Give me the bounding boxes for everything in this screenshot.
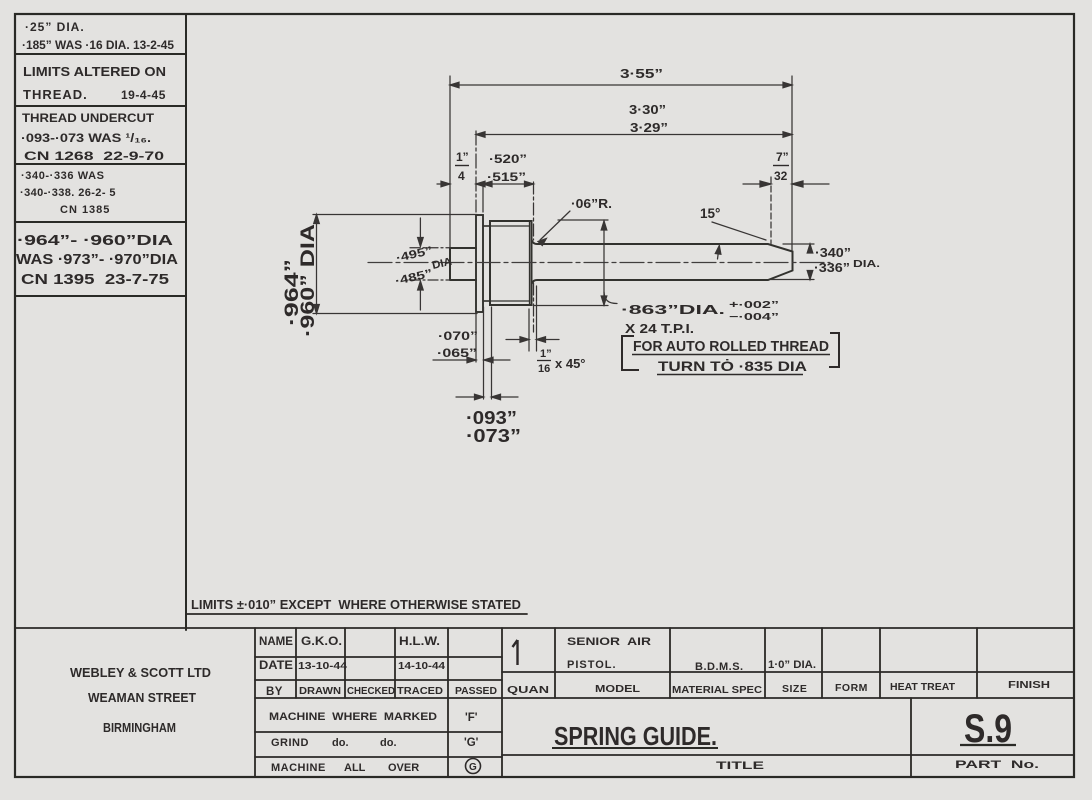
quantity [513,640,518,665]
svg-text:'G': 'G' [464,737,479,749]
svg-text:·340-·338. 26-2- 5: ·340-·338. 26-2- 5 [20,187,116,199]
svg-text:TRACED: TRACED [397,685,443,697]
svg-text:1”: 1” [540,348,552,360]
svg-text:DIA.: DIA. [853,259,880,270]
svg-text:WEAMAN STREET: WEAMAN STREET [88,691,196,705]
svg-text:FOR AUTO ROLLED THREAD: FOR AUTO ROLLED THREAD [633,339,829,355]
leader hook to .863 text [604,292,617,304]
circled symbol [466,759,481,774]
part: threaded collar outer [490,221,532,305]
dimension .093/.073 [456,396,484,398]
dimension .070/.065 [433,359,476,361]
dimension .863 vertical [603,221,605,305]
svg-text:TITLE: TITLE [716,760,764,772]
svg-text:·093”: ·093” [466,408,517,428]
svg-text:MACHINE WHERE MARKED: MACHINE WHERE MARKED [269,711,437,723]
svg-text:7”: 7” [776,150,789,164]
svg-text:·336”: ·336” [814,261,850,275]
svg-text:CN 1395 23-7-75: CN 1395 23-7-75 [21,272,169,288]
svg-text:SIZE: SIZE [782,683,807,695]
leader .06R [540,211,570,240]
revision note 5 [16,233,179,288]
svg-text:do.: do. [332,737,349,749]
svg-text:3·30”: 3·30” [629,103,666,117]
svg-text:do.: do. [380,737,397,749]
extension lines: chamfer (1/16 x 45) [528,309,530,351]
extension lines: undercut width (.093/.073) [483,307,485,399]
svg-text:32: 32 [774,169,788,183]
part: left stub shaft [450,248,476,280]
svg-text:·25” DIA.: ·25” DIA. [25,20,85,34]
svg-text:'F': 'F' [465,712,478,724]
svg-text:MODEL: MODEL [595,683,641,695]
svg-text:FINISH: FINISH [1008,679,1050,691]
part: flange disc [476,215,483,312]
svg-text:CN 1385: CN 1385 [60,204,110,216]
svg-text:THREAD UNDERCUT: THREAD UNDERCUT [22,111,155,125]
svg-text:·960” DIA: ·960” DIA [298,224,319,337]
dimension .340/.336 arrows [809,244,811,252]
dimension .495/.485 arrows [419,218,421,246]
svg-text:−·004”: −·004” [729,312,779,323]
extension line: flange left lower (.070/.065) [475,314,477,362]
svg-text:15°: 15° [700,206,720,221]
extension lines: shaft diameter (.340/.336) [783,243,814,245]
svg-text:G: G [469,762,477,773]
svg-text:4: 4 [458,169,465,183]
svg-text:19-4-45: 19-4-45 [121,88,166,102]
svg-text:TURN TȮ ·835 DIA: TURN TȮ ·835 DIA [658,358,807,374]
svg-text:THREAD.: THREAD. [23,87,88,102]
extension line: flange left (3.30 / quarter) [475,131,477,212]
svg-text:BIRMINGHAM: BIRMINGHAM [103,721,176,735]
extension line: flange right (.520) [482,182,484,212]
svg-text:·340”: ·340” [815,246,851,260]
svg-text:SENIOR AIR: SENIOR AIR [567,636,651,648]
svg-text:BY: BY [266,686,283,698]
revision note 2 [23,64,166,102]
part: thread undercut groove [483,226,490,301]
svg-text:MACHINE: MACHINE [271,762,326,774]
svg-text:·515”: ·515” [487,170,526,184]
leader 15 degrees [712,222,766,240]
dimension .964/.960 vertical [316,215,318,314]
revision column right edge [185,14,187,630]
svg-text:x 45°: x 45° [555,356,586,371]
extension lines: thread diameter (.863) [558,219,608,221]
svg-text:·520”: ·520” [489,152,527,166]
revision box separators [15,53,186,55]
small thread-end arrow [718,247,720,259]
svg-text:WAS ·973”- ·970”DIA: WAS ·973”- ·970”DIA [16,252,179,268]
svg-text:OVER: OVER [388,762,419,774]
svg-text:CHECKED: CHECKED [347,685,395,697]
svg-text:14-10-44: 14-10-44 [398,660,445,672]
revision note 1 [22,20,175,52]
svg-text:1·0” DIA.: 1·0” DIA. [768,659,816,671]
dimension 3.55 [450,84,792,86]
svg-text:·065”: ·065” [437,346,477,360]
svg-text:QUAN: QUAN [507,684,549,696]
svg-text:DRAWN: DRAWN [299,685,341,697]
svg-text:+·002”: +·002” [729,300,779,311]
svg-text:MATERIAL SPEC: MATERIAL SPEC [672,684,762,696]
svg-text:·340-·336 WAS: ·340-·336 WAS [21,170,105,182]
svg-text:·185” WAS ·16 DIA. 13-2-45: ·185” WAS ·16 DIA. 13-2-45 [22,40,175,52]
svg-text:3·55”: 3·55” [620,66,663,81]
dimension 3.30 / 3.29 [476,134,792,136]
svg-text:X 24 T.P.I.: X 24 T.P.I. [625,322,694,336]
svg-text:ALL: ALL [344,762,366,774]
svg-text:16: 16 [538,363,550,375]
svg-text:SPRING GUIDE.: SPRING GUIDE. [554,721,717,751]
svg-text:LIMITS ±·010” EXCEPT WHERE OT: LIMITS ±·010” EXCEPT WHERE OTHERWISE STA… [191,598,521,612]
centerline [368,262,830,264]
svg-text:HEAT TREAT: HEAT TREAT [890,681,956,693]
svg-text:PART No.: PART No. [955,759,1039,771]
title block header verticals [295,628,297,698]
svg-text:H.L.W.: H.L.W. [399,636,440,648]
svg-text:FORM: FORM [835,682,868,694]
revision note 3 [21,111,164,163]
svg-text:DATE: DATE [259,660,293,672]
svg-text:PASSED: PASSED [455,685,497,697]
extension chain lines: stub diameter [410,247,450,249]
svg-text:G.K.O.: G.K.O. [301,636,342,648]
svg-text:3·29”: 3·29” [630,121,668,135]
dimension 1/16 chamfer arrows [506,339,529,341]
svg-text:·093-·073 WAS ¹/₁₆.: ·093-·073 WAS ¹/₁₆. [21,131,151,145]
extension line: left end of stub (3.55) [449,76,451,248]
title block row lines [255,656,502,658]
svg-text:13-10-44: 13-10-44 [298,660,347,672]
svg-text:LIMITS ALTERED ON: LIMITS ALTERED ON [23,64,166,79]
svg-text:·863”DIA.: ·863”DIA. [621,302,725,317]
svg-text:WEBLEY & SCOTT LTD: WEBLEY & SCOTT LTD [70,666,211,680]
svg-text:1”: 1” [456,150,469,164]
dimension 7/32 [743,183,771,185]
extension line: collar right / shaft start (.520) [533,182,535,240]
title block top line [15,627,1074,629]
dimension .520 / .515 [483,183,534,185]
revision note 4 [20,170,116,216]
part: threaded collar inner lines [484,222,530,304]
svg-text:·073”: ·073” [466,426,521,446]
part: main shaft with chamfered tip [532,241,793,284]
extension line: shaft tip (3.55 / 3.30 / 7-32) [791,76,793,250]
general tolerance note [191,598,521,612]
svg-text:·070”: ·070” [438,329,478,343]
svg-text:·964”- ·960”DIA: ·964”- ·960”DIA [17,233,174,249]
title block full-height verticals [254,628,256,777]
svg-text:·06”R.: ·06”R. [571,197,612,211]
svg-text:NAME: NAME [259,636,293,648]
extension lines: flange diameter (.964/.960) [313,214,477,216]
dimension quarter inch [437,183,450,185]
svg-text:GRIND: GRIND [271,737,309,749]
svg-text:CN 1268 22-9-70: CN 1268 22-9-70 [24,149,164,163]
bracketed note: auto rolled thread [622,336,639,370]
extension line: taper start (7-32) [770,177,772,244]
svg-text:B.D.M.S.: B.D.M.S. [695,661,744,673]
svg-text:PISTOL.: PISTOL. [567,659,617,671]
